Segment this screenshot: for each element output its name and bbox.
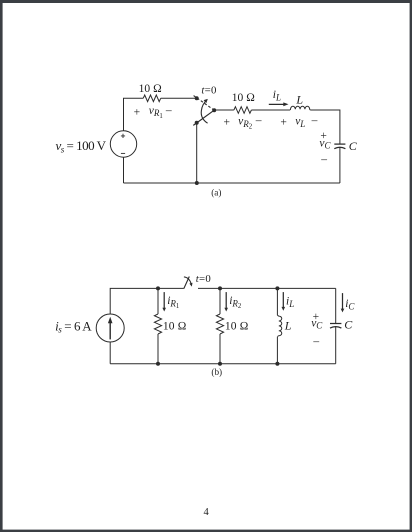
wire: top-left from source to R1	[124, 98, 144, 131]
switch (b) blade	[184, 277, 190, 289]
wire: R2 branch (b)	[219, 288, 221, 363]
svg-text:(b): (b)	[211, 367, 222, 377]
switch t=0 SPDT: solid blade	[193, 110, 214, 125]
wire: switch pivot to R2	[214, 109, 234, 111]
wire: right rail top to capacitor (b)	[335, 288, 337, 323]
svg-text:10 Ω: 10 Ω	[163, 321, 187, 333]
svg-text:10 Ω: 10 Ω	[225, 321, 249, 333]
voltage source minus mark	[121, 152, 125, 154]
switch motion arc	[201, 100, 207, 124]
switch dashed blade to t=0 contact	[194, 96, 215, 111]
wire: inductor to top-right corner down to capacitor	[310, 110, 340, 144]
resistor R1 (b) zigzag	[154, 314, 161, 334]
voltage source plus mark	[121, 134, 125, 138]
svg-text:10 Ω: 10 Ω	[232, 92, 255, 104]
svg-text:(a): (a)	[211, 187, 221, 197]
wire: capacitor to bottom right (b)	[335, 327, 337, 364]
junction dot bottom rail L branch (b)	[275, 362, 279, 366]
current source arrow	[108, 317, 113, 340]
svg-text:–: –	[320, 153, 327, 165]
svg-text:–: –	[165, 104, 172, 116]
svg-text:C: C	[344, 317, 353, 331]
current arrow iR2 (b)	[224, 292, 228, 311]
current arrow iC (b)	[341, 293, 345, 312]
wire: bottom rail of circuit (a)	[124, 182, 340, 184]
wire: R1 to switch top contact	[161, 97, 197, 99]
wire: left rail bottom (b)	[109, 342, 111, 364]
voltage source Vs circle	[110, 131, 136, 157]
svg-text:t=0: t=0	[196, 273, 211, 285]
current source Is circle	[96, 314, 124, 342]
capacitor C (b): top plate	[330, 323, 341, 325]
wire: top rail right of switch (b)	[198, 287, 336, 289]
junction dot bottom rail R2 branch (b)	[218, 362, 222, 366]
wire: R1 branch (b)	[157, 288, 159, 363]
junction dot top rail R2 branch (b)	[218, 286, 222, 290]
current arrow iR1 (b)	[162, 292, 166, 311]
resistor R1 zigzag	[143, 95, 160, 102]
junction dot top rail R1 branch (b)	[156, 286, 160, 290]
junction dot bottom rail R1 branch (b)	[156, 362, 160, 366]
wire: left rail top (b)	[110, 288, 184, 314]
svg-text:L: L	[284, 318, 292, 332]
capacitor C (a): top plate	[334, 143, 345, 145]
switch (b) arrowhead	[189, 283, 192, 287]
svg-text:C: C	[349, 139, 358, 153]
switch pivot dot	[212, 108, 216, 112]
resistor R2 zigzag	[234, 107, 251, 114]
switch bottom contact dot	[195, 121, 199, 125]
svg-text:+: +	[224, 117, 231, 129]
switch arc arrowhead	[204, 99, 208, 103]
capacitor C (b): curved bottom plate	[330, 327, 341, 328]
wire: bottom rail (b)	[110, 363, 336, 365]
current arrow iL (b)	[282, 292, 286, 311]
svg-text:–: –	[311, 115, 318, 127]
svg-text:L: L	[295, 92, 303, 106]
svg-text:4: 4	[204, 507, 210, 518]
svg-text:–: –	[312, 336, 319, 348]
wire: R2 to inductor	[251, 109, 290, 111]
junction dot on bottom rail (a)	[195, 181, 199, 185]
wire: switch bottom contact down to bottom rail	[196, 123, 198, 183]
inductor L coil (a)	[290, 106, 310, 110]
capacitor C (a): curved bottom plate	[334, 147, 345, 148]
switch (b) motion arrow	[184, 277, 191, 284]
switch top contact dot	[195, 96, 199, 100]
svg-text:vs = 100 V: vs = 100 V	[56, 138, 107, 154]
svg-text:+: +	[280, 117, 287, 129]
svg-text:10 Ω: 10 Ω	[139, 83, 162, 95]
junction dot top rail L branch (b)	[275, 286, 279, 290]
svg-text:t=0: t=0	[201, 85, 216, 97]
svg-text:–: –	[255, 115, 262, 127]
wire: capacitor to bottom-right corner	[339, 147, 341, 183]
svg-text:is = 6 A: is = 6 A	[55, 318, 92, 334]
current arrow iL (a)	[269, 102, 289, 106]
wire: L branch (b)	[276, 288, 278, 363]
wire: source bottom to bottom rail	[123, 157, 125, 183]
inductor L coil (b)	[277, 315, 281, 336]
svg-text:+: +	[134, 107, 141, 119]
resistor R2 (b) zigzag	[216, 314, 223, 334]
